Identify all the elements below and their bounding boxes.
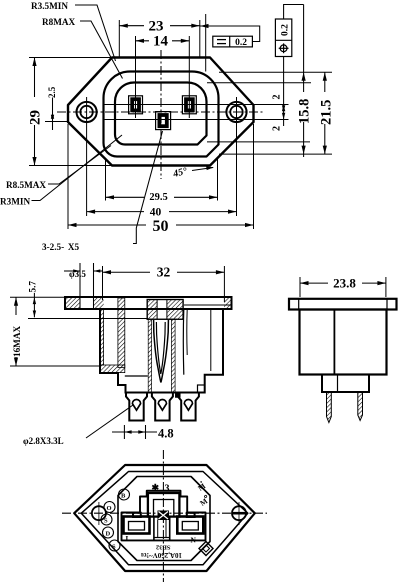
svg-text:32: 32 <box>157 265 171 280</box>
recess inner contour <box>115 83 207 145</box>
dim text 29.5 <box>144 191 174 202</box>
extension line hole right / dim40 <box>236 97 238 216</box>
right extension line upper pins center <box>104 104 289 106</box>
svg-text:0.2: 0.2 <box>235 38 247 48</box>
rear flange outer hexagon <box>74 465 255 571</box>
housing strip hatch left <box>148 319 151 392</box>
left extension line flange bottom <box>29 165 112 167</box>
housing wall curve right <box>182 309 185 375</box>
frame connector to dim 15.8 <box>284 5 304 20</box>
svg-text:3-2.5- X5: 3-2.5- X5 <box>42 242 80 252</box>
right extension line earth pin center <box>104 119 289 121</box>
extension line near recess right <box>205 14 207 72</box>
svg-text:2.5: 2.5 <box>47 86 57 98</box>
left wall bottom band hatch <box>101 365 125 373</box>
earth blade outer <box>154 320 169 383</box>
extension 5.7 bottom <box>28 318 148 320</box>
inner line right body <box>210 309 212 371</box>
terminal tab 3 <box>178 393 199 421</box>
extension 16MAX bottom <box>10 365 100 367</box>
extension 32 right <box>223 266 225 302</box>
right extension line recess outer bottom <box>219 153 332 155</box>
cavity floor line <box>125 375 148 377</box>
dimension 14 <box>136 40 190 42</box>
svg-text:3: 3 <box>165 484 170 495</box>
rear terminal housing crown <box>122 491 206 541</box>
svg-text:4.8: 4.8 <box>158 427 174 441</box>
pin N blade <box>186 99 193 110</box>
svg-text:SE32: SE32 <box>156 544 170 551</box>
terminal N tab <box>187 513 195 517</box>
left wall outer hatch <box>100 309 104 365</box>
hole phi3.5 edge left <box>79 263 81 309</box>
dimension 50 <box>68 224 254 226</box>
dimension 2-2 line <box>283 57 285 127</box>
svg-text:29.5: 29.5 <box>149 192 167 203</box>
terminal N inner <box>182 522 198 531</box>
step clip right <box>198 385 205 393</box>
svg-text:10A,250V~!ʋı: 10A,250V~!ʋı <box>141 551 182 559</box>
svg-text:15.8: 15.8 <box>297 99 313 124</box>
rear flange inner hexagon <box>81 472 248 565</box>
earth slot wall right <box>166 300 168 320</box>
pin E blade <box>159 115 166 126</box>
rear mounting hole left <box>92 506 106 520</box>
dimension 4.8 line <box>112 431 157 433</box>
earth slot wall left <box>156 300 158 320</box>
pin E outer slot <box>156 112 171 130</box>
dim text 5.7 <box>26 278 37 293</box>
rear mounting hole right <box>232 506 246 520</box>
recess outer contour <box>104 71 219 156</box>
dimension 29.5 <box>106 196 218 198</box>
rear body octagon <box>118 477 210 561</box>
dim text 14 <box>149 35 172 47</box>
dimension 23 <box>119 25 200 27</box>
cert mark M top <box>196 481 207 493</box>
side pin 1 <box>327 392 332 423</box>
extension line dim23 right <box>199 20 201 58</box>
earth terminal inner square <box>154 500 174 517</box>
parallelism feature frame <box>213 36 253 47</box>
extension line hole left / dim40 <box>86 97 88 216</box>
extension 23.8 left <box>299 277 301 297</box>
mounting hole left <box>77 102 97 122</box>
svg-text:2: 2 <box>272 126 283 131</box>
position feature frame <box>275 5 303 57</box>
svg-text:29: 29 <box>28 110 44 125</box>
bottom extension recess left <box>105 158 107 201</box>
dim text 23.8 <box>328 277 362 289</box>
dim text 21.5 <box>318 92 331 124</box>
svg-text:R3MIN: R3MIN <box>0 197 30 207</box>
vertical centerline front view <box>160 50 162 179</box>
earth pin end <box>158 511 170 521</box>
terminal L outer <box>124 517 150 534</box>
rear hole right slot <box>232 512 247 515</box>
svg-text:14: 14 <box>153 34 169 50</box>
svg-text:50: 50 <box>153 218 169 235</box>
dimension 23.8 <box>300 282 386 284</box>
rear horizontal centerline <box>62 512 267 514</box>
mounting hole right <box>226 102 246 122</box>
dimension 32 <box>103 271 225 273</box>
dimension phi3.5 <box>64 270 80 272</box>
pin L blade <box>132 99 139 110</box>
horizontal centerline front view <box>57 111 263 113</box>
left wall inner hatch <box>118 298 125 368</box>
side step divider <box>337 375 339 393</box>
cert diamond VDE <box>199 542 213 556</box>
extension 23.8 right <box>385 277 387 297</box>
right extension line recess outer top <box>219 71 332 73</box>
terminal N outer <box>177 517 203 534</box>
terminal L tab <box>133 513 141 517</box>
flange plate section <box>65 297 232 309</box>
side body <box>300 310 387 375</box>
svg-text:S: S <box>104 518 108 525</box>
extension line pin N center <box>188 36 190 118</box>
svg-text:R8MAX: R8MAX <box>42 17 76 27</box>
svg-text:O: O <box>107 505 112 512</box>
dim text 29 <box>27 97 40 125</box>
right extension line recess inner top <box>207 82 311 84</box>
terminal tab 2 <box>152 393 173 421</box>
svg-text:2: 2 <box>272 95 283 100</box>
side plate end line left <box>298 299 300 310</box>
cert circles <box>101 489 130 551</box>
dimension 29 line <box>34 58 36 166</box>
left extension line flange top <box>29 57 112 59</box>
svg-text:S: S <box>112 544 116 551</box>
side step <box>322 375 369 393</box>
earth tab channel right <box>169 517 171 540</box>
flange outline <box>68 58 254 166</box>
plate hatch mid <box>94 298 104 308</box>
rear hole crosshair right <box>238 502 240 525</box>
earth tab inner right <box>165 520 167 537</box>
earth tab foot <box>154 537 170 539</box>
earth pin housing block <box>147 300 183 320</box>
svg-text:L: L <box>126 534 131 543</box>
bottom extension recess right <box>217 158 219 201</box>
svg-text:21.5: 21.5 <box>319 100 335 125</box>
svg-text:0.2: 0.2 <box>281 24 291 36</box>
terminal hole 1 <box>132 400 140 411</box>
side plate end line right <box>386 299 388 310</box>
earth terminal outer square <box>148 493 180 517</box>
earth blade inner <box>156 322 165 374</box>
rear hole crosshair left <box>98 502 100 525</box>
side body divider <box>333 310 335 375</box>
plate hatch right <box>224 298 231 308</box>
dimension 15.8 line <box>303 5 305 158</box>
dim text 16MAX <box>9 315 21 357</box>
svg-text:✱: ✱ <box>152 483 160 493</box>
earth tab channel left <box>153 517 155 540</box>
extension 16MAX top <box>10 296 65 298</box>
earth tab inner left <box>157 520 159 537</box>
pin N outer slot <box>182 96 196 114</box>
block hatch left <box>148 300 157 319</box>
dimension 5.7 <box>33 284 35 317</box>
svg-text:φ2.8X3.3L: φ2.8X3.3L <box>23 436 64 446</box>
position symbol <box>280 45 287 52</box>
terminal foot dark left <box>175 393 180 398</box>
dimension 40 <box>87 211 237 213</box>
dim text 32 <box>150 266 177 277</box>
svg-text:40: 40 <box>150 206 162 218</box>
terminal hole 3 <box>184 400 192 411</box>
body profile section <box>100 309 223 393</box>
extension line 2.5 lower <box>45 121 68 123</box>
parallelism frame leader <box>200 26 260 42</box>
hole phi3.5 edge right <box>93 263 95 309</box>
side pin 2 <box>358 392 363 421</box>
block hatch right <box>167 300 182 319</box>
dimension 21.5 line <box>324 72 326 154</box>
pin L outer slot <box>129 96 143 114</box>
rear vertical centerline <box>162 450 164 582</box>
dim text 50 <box>146 218 176 232</box>
extension 32 left <box>102 266 104 300</box>
bottom extension flange right <box>253 124 255 229</box>
svg-text:R8.5MAX: R8.5MAX <box>6 180 46 190</box>
svg-text:B: B <box>121 493 126 500</box>
extension line pin L center <box>135 36 137 118</box>
parallelism symbol <box>217 39 226 41</box>
dim text 40 <box>144 206 169 217</box>
svg-text:R3.5MIN: R3.5MIN <box>31 1 68 11</box>
bottom extension flange left <box>67 124 69 229</box>
svg-text:N: N <box>191 536 197 545</box>
plate hatch left <box>66 298 80 308</box>
svg-text:16MAX: 16MAX <box>12 326 22 357</box>
dimension 16MAX <box>15 297 17 366</box>
terminal hole 2 <box>158 400 166 411</box>
svg-text:D: D <box>106 531 111 538</box>
dim text 15.8 <box>296 92 309 122</box>
dimension 4.8 ticks <box>123 425 125 439</box>
terminal tab 1 <box>126 393 147 421</box>
svg-text:5.7: 5.7 <box>28 281 38 293</box>
svg-text:23: 23 <box>149 19 164 35</box>
dim text 23 <box>144 20 170 32</box>
side flange plate <box>289 299 397 310</box>
extension line dim23 left <box>118 20 120 58</box>
right extension line recess inner bottom <box>207 141 310 143</box>
housing strip hatch right <box>171 319 175 392</box>
svg-text:φ3.5: φ3.5 <box>69 269 86 279</box>
svg-text:23.8: 23.8 <box>333 276 356 291</box>
plate inner shoulder line right <box>184 304 231 306</box>
cert mark M bottom <box>198 495 211 508</box>
terminal L inner <box>129 522 145 531</box>
housing wall curve right2 <box>186 309 188 355</box>
dimension 2.5 line <box>52 98 54 131</box>
